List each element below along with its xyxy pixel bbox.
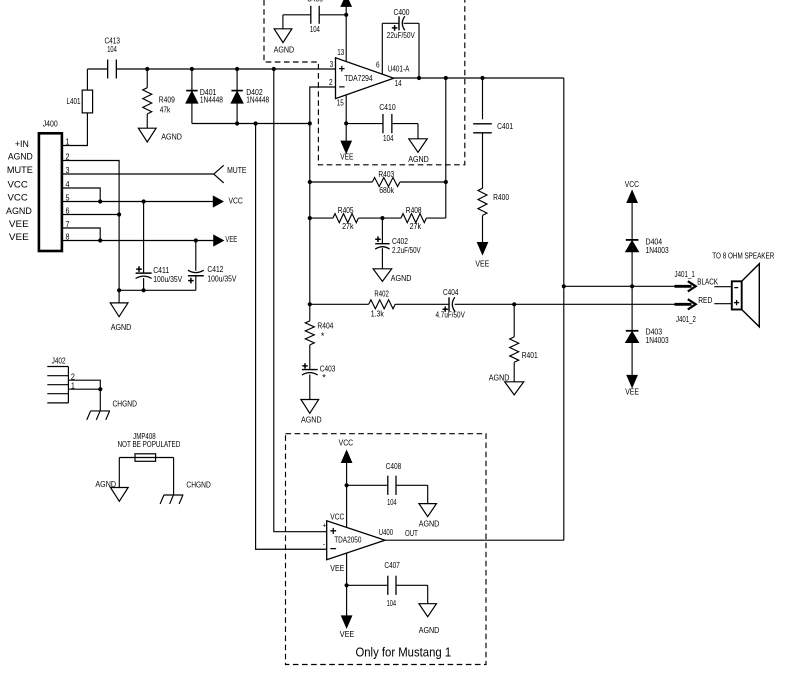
svg-text:104: 104 <box>383 133 394 143</box>
capacitor C408 104 <box>347 485 428 503</box>
dashed region Only for Mustang 1 box <box>286 434 487 665</box>
junction ground bus at AGND bus <box>117 288 121 292</box>
svg-text:R403: R403 <box>378 169 394 179</box>
wire diode cathode net to feedback node <box>192 123 310 125</box>
diode D401 1N4448 <box>191 69 193 91</box>
svg-text:VCC: VCC <box>625 179 639 189</box>
svg-text:TDA7294: TDA7294 <box>344 73 373 83</box>
svg-text:U400: U400 <box>379 527 393 537</box>
svg-text:13: 13 <box>337 47 344 57</box>
connector J400 <box>39 133 62 251</box>
capacitor C404 4.7uF/50V <box>448 297 450 311</box>
wire TDA2050 OUT row <box>385 539 564 541</box>
wire +IN input net (C413 output to U401 pin3) <box>87 68 335 70</box>
wire between R405 and R408 <box>358 217 401 219</box>
ground AGND below R401 <box>505 382 524 395</box>
svg-text:*: * <box>322 372 326 382</box>
ground AGND for C402 <box>373 269 392 282</box>
resistor R404 <box>309 304 311 321</box>
wire J400 pin7 jog <box>62 228 100 241</box>
junction BLACK takeoff <box>562 284 566 288</box>
wire filter ground bus <box>119 289 196 291</box>
wire L401 leads <box>62 69 88 146</box>
svg-text:2.2uF/50V: 2.2uF/50V <box>392 245 421 255</box>
svg-text:C401: C401 <box>497 121 513 131</box>
wire JMP408 right leg <box>173 458 175 496</box>
diode D403 1N4003 <box>626 330 639 332</box>
svg-text:VEE: VEE <box>475 259 489 269</box>
svg-text:Only for Mustang 1: Only for Mustang 1 <box>355 646 451 660</box>
svg-text:1N4448: 1N4448 <box>246 95 269 105</box>
svg-text:R404: R404 <box>317 321 333 331</box>
wire VEE leg TDA2050 <box>346 553 348 616</box>
junction C412 at VEE row <box>194 238 198 242</box>
svg-text:C408: C408 <box>386 461 402 471</box>
svg-text:C404: C404 <box>443 287 459 297</box>
wire J402 to chassis ground <box>99 389 101 411</box>
ground AGND below J400 <box>110 303 128 317</box>
junction C408 tap <box>345 483 349 487</box>
svg-text:R401: R401 <box>522 350 538 360</box>
junction pin15 at C410 <box>344 121 348 125</box>
svg-text:104: 104 <box>387 497 397 507</box>
diode D404 1N4003 <box>626 239 639 241</box>
svg-text:VEE: VEE <box>340 629 355 639</box>
junction R402 left / R404 top <box>308 302 312 306</box>
svg-text:OUT: OUT <box>405 528 418 538</box>
svg-text:VCC: VCC <box>229 196 243 206</box>
capacitor C400 22uF/50V bootstrap <box>382 23 419 78</box>
capacitor C413 <box>107 60 109 79</box>
svg-text:VCC: VCC <box>339 438 354 448</box>
op-amp U401-A TDA7294 <box>336 58 394 99</box>
resistor R405 27k <box>310 217 333 219</box>
svg-text:VEE: VEE <box>330 563 344 573</box>
wire VCC riser to U401 pin13 <box>345 6 347 62</box>
svg-text:C407: C407 <box>384 560 400 570</box>
wire J402 pin2 <box>68 380 100 389</box>
svg-text:VCC: VCC <box>8 192 29 203</box>
svg-text:AGND: AGND <box>301 414 322 424</box>
wire output bus vertical to TDA2050 output <box>563 78 565 540</box>
svg-text:−: − <box>339 81 345 93</box>
junction C405 at VCC riser <box>344 13 348 17</box>
svg-text:1N4448: 1N4448 <box>200 95 223 105</box>
junction C411 at VCC row <box>142 199 146 203</box>
svg-text:+IN: +IN <box>15 138 29 149</box>
junction C402 tap <box>380 216 384 220</box>
wire J400 pin4 jog <box>62 188 100 202</box>
off-page connector MUTE <box>214 165 224 183</box>
wire C405 to AGND <box>282 15 284 29</box>
svg-text:R408: R408 <box>406 205 422 215</box>
svg-text:680k: 680k <box>379 185 394 195</box>
resistor R409 47k <box>146 69 148 88</box>
wire BLACK speaker net <box>564 285 675 287</box>
inductor L401 <box>82 90 92 113</box>
svg-text:U401-A: U401-A <box>388 64 410 74</box>
wire -IN drop to TDA2050 inverting input <box>256 124 327 550</box>
junction R403 right <box>444 180 448 184</box>
junction R405 left <box>308 216 312 220</box>
capacitor C402 2.2uF/50V <box>381 218 383 244</box>
capacitor C401 <box>482 78 484 119</box>
wire JMP408 left leg <box>118 458 120 488</box>
capacitor C412 100u/35V <box>195 241 197 271</box>
svg-text:22uF/50V: 22uF/50V <box>387 30 415 40</box>
svg-text:BLACK: BLACK <box>697 276 718 286</box>
svg-text:1: 1 <box>66 137 70 146</box>
junction C401 takeoff <box>480 76 484 80</box>
svg-text:47k: 47k <box>160 105 171 115</box>
junction D402 bottom <box>235 121 239 125</box>
svg-text:J402: J402 <box>52 356 66 366</box>
svg-text:CHGND: CHGND <box>186 480 210 490</box>
resistor R403 680k <box>310 181 446 183</box>
svg-text:CHGND: CHGND <box>113 398 137 408</box>
svg-text:C410: C410 <box>379 102 396 112</box>
svg-text:R402: R402 <box>374 288 389 298</box>
wire feedback vertical from output <box>445 78 447 218</box>
svg-text:RED: RED <box>698 295 712 305</box>
svg-text:NOT BE POPULATED: NOT BE POPULATED <box>118 439 181 449</box>
svg-text:27k: 27k <box>410 221 422 231</box>
capacitor C403 <box>302 369 318 371</box>
ground AGND for C405 <box>274 29 292 43</box>
svg-text:TO 8 OHM SPEAKER: TO 8 OHM SPEAKER <box>712 251 774 261</box>
capacitor C405 100n supply bypass <box>283 14 346 16</box>
svg-text:VEE: VEE <box>225 234 237 244</box>
wire +IN drop to TDA2050 noninverting input <box>274 69 327 532</box>
svg-text:104: 104 <box>387 598 397 608</box>
svg-text:6: 6 <box>376 60 380 70</box>
svg-text:C405: C405 <box>307 0 323 3</box>
svg-text:27k: 27k <box>342 221 354 231</box>
junction C400 return at output <box>417 76 421 80</box>
junction R409 top <box>145 67 149 71</box>
svg-text:1N4003: 1N4003 <box>646 245 669 255</box>
svg-text:+: + <box>322 522 326 529</box>
svg-text:-: - <box>323 541 326 548</box>
ground AGND below R409 <box>138 128 156 142</box>
svg-text:J400: J400 <box>43 119 58 129</box>
svg-text:MUTE: MUTE <box>7 164 33 175</box>
svg-text:J401_1: J401_1 <box>675 269 695 279</box>
power VEE arrow below R400 <box>478 243 488 255</box>
svg-text:AGND: AGND <box>6 205 32 216</box>
wire J400 pin6 <box>62 214 119 216</box>
junction C407 tap <box>345 583 349 587</box>
wire U401 output row <box>394 77 564 79</box>
svg-text:R409: R409 <box>159 95 175 105</box>
capacitor C407 104 <box>347 585 428 603</box>
svg-text:VEE: VEE <box>625 386 639 396</box>
resistor R401 <box>513 304 515 337</box>
resistor R408 27k <box>401 214 426 223</box>
junction R403 left <box>308 180 312 184</box>
svg-text:R405: R405 <box>338 205 354 215</box>
wire U401 pin2 inverting input net <box>310 87 336 304</box>
svg-text:MUTE: MUTE <box>227 165 247 175</box>
junction pin4-pin5 <box>98 199 102 203</box>
wire VCC riser TDA2050 <box>346 462 348 527</box>
svg-text:AGND: AGND <box>391 273 412 283</box>
junction R401 tap <box>512 302 516 306</box>
junction clamp diodes at BLACK net <box>630 284 634 288</box>
wire J400 pin2 AGND bus <box>62 161 119 303</box>
dashed region U401 supply box <box>264 0 465 165</box>
ground CHGND below J402 <box>87 411 110 420</box>
junction D402 top <box>235 67 239 71</box>
junction feedback node at vertical <box>308 121 312 125</box>
ground AGND below C403 <box>301 400 319 414</box>
wire J400 pin8 VEE <box>62 240 214 242</box>
power VCC arrow top (clipped) <box>341 0 351 6</box>
svg-text:AGND: AGND <box>408 154 429 164</box>
svg-text:104: 104 <box>107 44 117 54</box>
svg-text:VEE: VEE <box>9 231 29 242</box>
ground AGND for C408 <box>419 504 437 517</box>
op-amp U400 TDA2050 <box>327 521 385 560</box>
wire J402 pin1 <box>68 388 100 390</box>
wire J400 pin3 MUTE <box>62 173 214 175</box>
svg-text:4.7uF/50V: 4.7uF/50V <box>436 310 465 320</box>
junction pin6 on AGND bus <box>117 212 121 216</box>
power VEE arrow for clamp diodes <box>627 375 637 387</box>
svg-text:AGND: AGND <box>8 150 33 161</box>
resistor R402 1.3k <box>369 300 396 309</box>
wire U401 pin15 to VEE <box>345 95 347 141</box>
ground AGND for C410 <box>409 139 427 153</box>
junction pin7-pin8 <box>98 238 102 242</box>
svg-text:VCC: VCC <box>8 179 29 190</box>
off-page arrow J401_1 BLACK <box>675 285 692 288</box>
svg-text:3: 3 <box>330 59 334 69</box>
junction +IN net <box>272 67 276 71</box>
svg-text:*: * <box>321 331 325 341</box>
junction J402 pins <box>98 387 102 391</box>
capacitor C411 100u/35V <box>143 202 145 274</box>
off-page arrow VCC <box>213 196 222 206</box>
wire R402 output row / RED net <box>310 303 675 305</box>
svg-text:R400: R400 <box>493 192 509 202</box>
off-page arrow VEE <box>214 235 223 245</box>
capacitor C410 104 <box>346 124 418 139</box>
svg-text:AGND: AGND <box>419 518 440 528</box>
svg-text:1.3k: 1.3k <box>371 309 385 319</box>
svg-text:VEE: VEE <box>340 151 353 161</box>
ground AGND below JMP408 <box>110 488 128 502</box>
svg-text:15: 15 <box>337 98 344 108</box>
svg-text:AGND: AGND <box>419 625 440 635</box>
svg-text:AGND: AGND <box>111 322 132 332</box>
svg-text:2: 2 <box>329 77 333 87</box>
power VEE arrow TDA2050 <box>342 616 352 628</box>
svg-text:VEE: VEE <box>9 218 29 229</box>
ground AGND for C407 <box>419 604 437 617</box>
svg-text:C400: C400 <box>394 7 410 17</box>
ground CHGND below JMP408 <box>160 495 183 504</box>
svg-text:104: 104 <box>310 24 320 34</box>
svg-text:AGND: AGND <box>95 479 116 489</box>
junction D401 top <box>190 67 194 71</box>
svg-text:L401: L401 <box>67 96 81 106</box>
svg-text:AGND: AGND <box>161 131 182 141</box>
svg-text:VCC: VCC <box>330 512 344 522</box>
power VEE arrow below U401 <box>341 141 351 153</box>
svg-text:AGND: AGND <box>274 44 295 54</box>
svg-text:TDA2050: TDA2050 <box>334 535 361 545</box>
junction -IN tap to U400 <box>254 121 258 125</box>
svg-text:AGND: AGND <box>489 372 510 382</box>
junction feedback takeoff <box>444 76 448 80</box>
resistor R400 <box>478 188 487 215</box>
svg-text:14: 14 <box>395 78 402 88</box>
off-page arrow J401_2 RED <box>675 303 692 306</box>
svg-text:1N4003: 1N4003 <box>646 335 669 345</box>
svg-text:100u/35V: 100u/35V <box>153 274 182 284</box>
wire J400 pin5 VCC <box>62 201 214 203</box>
svg-text:100u/35V: 100u/35V <box>207 273 236 283</box>
svg-text:−: − <box>330 543 337 555</box>
junction C411 bottom <box>142 288 146 292</box>
svg-text:J401_2: J401_2 <box>676 314 696 324</box>
diode D402 1N4448 <box>236 69 238 91</box>
